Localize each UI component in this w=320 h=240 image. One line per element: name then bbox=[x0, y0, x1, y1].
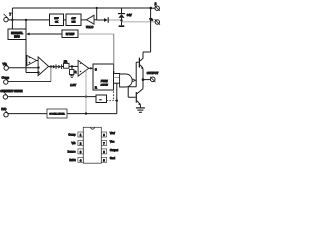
wire UVLO sense from rail bbox=[96, 8, 98, 20]
pin VFB (2) bbox=[4, 62, 9, 70]
oscillator rail wire bbox=[8, 113, 117, 115]
svg-text:CURRENT SENSE: CURRENT SENSE bbox=[0, 89, 22, 93]
svg-text:OUTPUT: OUTPUT bbox=[147, 71, 159, 75]
node VCC junction A bbox=[11, 19, 13, 21]
svg-text:Vfb: Vfb bbox=[3, 62, 8, 66]
comparator UVLO bbox=[87, 15, 95, 24]
wire Q1 emitter to output node bbox=[142, 69, 144, 89]
svg-text:2: 2 bbox=[80, 143, 82, 146]
pin 1 box bbox=[78, 132, 83, 137]
diode D3 bbox=[104, 17, 108, 23]
svg-text:S: S bbox=[95, 67, 97, 71]
node T2 input VFB bbox=[37, 66, 39, 68]
svg-text:R: R bbox=[75, 70, 77, 74]
svg-text:7: 7 bbox=[103, 143, 105, 146]
op-amp T1 error amp bbox=[27, 55, 37, 65]
wire VFB to T2 bbox=[8, 67, 38, 69]
node comp junction bbox=[50, 65, 52, 67]
node divider junction bbox=[71, 65, 73, 67]
wire comp riser bbox=[50, 67, 52, 82]
svg-text:R/C: R/C bbox=[1, 107, 6, 111]
svg-text:Gnd: Gnd bbox=[110, 156, 116, 160]
wire clock to gate input bbox=[114, 82, 120, 84]
resistor 2R series bbox=[64, 63, 70, 68]
zener Z1 34V bbox=[118, 8, 125, 27]
svg-text:PWM: PWM bbox=[101, 79, 109, 83]
wire between boxes bbox=[64, 19, 67, 21]
svg-text:R: R bbox=[95, 86, 97, 90]
svg-text:Comp: Comp bbox=[68, 133, 76, 137]
node isense junction bbox=[85, 95, 87, 97]
svg-text:Isense: Isense bbox=[68, 150, 76, 154]
DIP-8 package body bbox=[83, 127, 101, 163]
op-amp T2 amplifier bbox=[38, 57, 49, 76]
svg-text:8: 8 bbox=[155, 2, 157, 6]
wire bias net to gate top bbox=[113, 34, 115, 72]
svg-text:34V: 34V bbox=[127, 13, 132, 17]
svg-text:Rt/Ct: Rt/Ct bbox=[69, 158, 75, 162]
svg-text:Comp: Comp bbox=[2, 76, 10, 80]
pin ISENSE (3) bbox=[3, 92, 7, 100]
svg-text:Vfb: Vfb bbox=[71, 141, 76, 145]
node VCC junction B bbox=[25, 19, 27, 21]
svg-text:7: 7 bbox=[9, 12, 11, 16]
svg-text:3: 3 bbox=[80, 151, 82, 154]
svg-text:1: 1 bbox=[80, 134, 82, 137]
node clamp to oscillator rail bbox=[85, 112, 87, 114]
svg-text:MIN: MIN bbox=[72, 22, 76, 24]
gate G1 output logic bbox=[120, 74, 135, 87]
wire box to comparator bbox=[81, 19, 87, 21]
svg-text:OK: OK bbox=[55, 22, 59, 24]
5V reference box bbox=[62, 30, 78, 38]
diode D1 bbox=[53, 64, 56, 69]
pin OUTPUT (6) bbox=[150, 77, 155, 82]
wire D1 to D2 bbox=[56, 66, 58, 68]
svg-text:REF: REF bbox=[54, 18, 59, 20]
node rail junction bbox=[96, 7, 98, 9]
oscillator box bbox=[47, 109, 67, 118]
box SB ramp bbox=[96, 95, 107, 103]
pin COMP (1) bbox=[3, 76, 8, 84]
wire rail down to Q1 collector bbox=[143, 8, 151, 59]
svg-text:4: 4 bbox=[80, 159, 82, 162]
wire 5V ref to latch feed (grey) bbox=[78, 33, 114, 35]
wire top supply rail bbox=[12, 7, 150, 9]
svg-text:1.0V: 1.0V bbox=[70, 83, 76, 87]
svg-text:UVLO: UVLO bbox=[86, 25, 93, 29]
svg-text:6: 6 bbox=[103, 151, 105, 154]
pin VREF (8) bbox=[155, 6, 160, 11]
pin 6 box bbox=[101, 149, 106, 154]
wire T2 output bbox=[49, 66, 53, 68]
svg-text:~: ~ bbox=[100, 97, 102, 101]
wire D2 to divider bbox=[62, 66, 64, 68]
pin VC bbox=[155, 19, 160, 24]
ground Q2 emitter bbox=[136, 108, 145, 112]
box reference logic U1 bbox=[50, 14, 64, 26]
pin 5 box bbox=[101, 157, 106, 162]
svg-text:8: 8 bbox=[103, 134, 105, 137]
wire rail to VREF pin bbox=[151, 7, 155, 9]
wire to Q1 base bbox=[136, 61, 139, 63]
wire T1 out bbox=[37, 60, 39, 62]
wire clock vertical bbox=[116, 83, 118, 113]
wire dashed latch aux bbox=[113, 85, 115, 100]
wire gate output bbox=[134, 79, 136, 81]
svg-text:4.9V: 4.9V bbox=[71, 18, 76, 20]
svg-text:Output: Output bbox=[110, 148, 118, 152]
ground divider bbox=[70, 75, 74, 78]
pin 4 box bbox=[78, 157, 83, 162]
pin RT/CT (4) bbox=[4, 109, 9, 117]
wire VCC to boxes bbox=[8, 19, 49, 21]
pin 2 box bbox=[78, 141, 83, 146]
wire latch output stub (grey) bbox=[114, 77, 120, 79]
pin 8 box bbox=[101, 132, 106, 137]
svg-text:Vref: Vref bbox=[110, 131, 115, 135]
wire 2R to comparator bbox=[69, 65, 78, 67]
pin 3 box bbox=[78, 149, 83, 154]
node output junction bbox=[142, 78, 145, 81]
svg-text:Vcc: Vcc bbox=[110, 139, 115, 143]
wire to Q2 base jog bbox=[128, 87, 136, 98]
wire COMP pin bbox=[8, 81, 51, 83]
node rail end junction bbox=[150, 7, 153, 10]
pin VCC (7) bbox=[4, 14, 9, 22]
wire VCC pin drop to rail and bias box bbox=[11, 8, 13, 29]
box UVLO threshold U2 bbox=[66, 14, 81, 26]
svg-text:INTERNAL: INTERNAL bbox=[11, 32, 23, 35]
wire comparator to diode bbox=[94, 19, 104, 21]
node zener wire junction bbox=[120, 19, 122, 21]
wire comparator to latch with arrow bbox=[89, 67, 93, 70]
node T2 input bias bbox=[37, 71, 39, 73]
wire arrow into internal bias bbox=[26, 33, 62, 36]
wire bias to T2 lower input bbox=[26, 72, 38, 74]
svg-text:LATCH: LATCH bbox=[101, 83, 108, 86]
svg-text:BIAS: BIAS bbox=[14, 36, 20, 39]
diode D2 bbox=[58, 64, 61, 69]
transistor Q2 bbox=[136, 89, 143, 108]
wire zener node to VC pin (grey) bbox=[122, 21, 156, 23]
wire divider drop bbox=[71, 66, 73, 69]
wire SB output bbox=[107, 100, 117, 102]
pin 7 box bbox=[101, 141, 106, 146]
svg-text:5V REF: 5V REF bbox=[66, 33, 75, 36]
resistor R shunt bbox=[70, 70, 74, 75]
svg-text:OSCILLATOR: OSCILLATOR bbox=[49, 113, 64, 116]
svg-text:2R: 2R bbox=[64, 60, 67, 64]
internal bias box bbox=[8, 29, 26, 40]
wire diode to zener node (grey) bbox=[109, 19, 122, 21]
wire clamp vertical (grey) bbox=[85, 71, 87, 114]
node SB output junction bbox=[116, 99, 118, 101]
wire output node to pin bbox=[143, 79, 150, 81]
wire gate split vertical bbox=[135, 62, 137, 87]
comparator C1 current sense bbox=[78, 60, 89, 76]
wire ISENSE pin net bbox=[8, 96, 96, 98]
PWM latch box U3 bbox=[93, 64, 114, 90]
svg-text:5: 5 bbox=[103, 159, 105, 162]
transistor Q1 bbox=[139, 58, 144, 70]
wire vertical bias feed bbox=[25, 20, 27, 73]
